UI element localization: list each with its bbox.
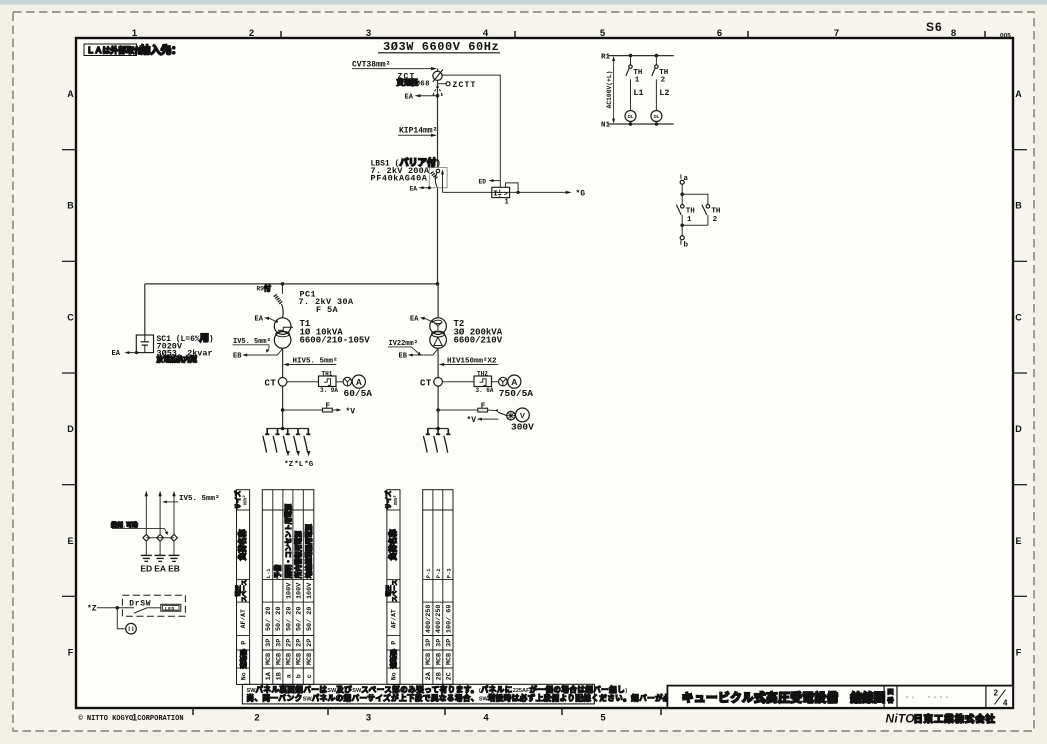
svg-text:P-3: P-3	[446, 568, 452, 578]
svg-text:LED: LED	[165, 606, 175, 612]
svg-text:EA: EA	[112, 350, 121, 358]
svg-text:mm²: mm²	[241, 495, 248, 505]
svg-text:60/5A: 60/5A	[344, 388, 373, 399]
table header P	[383, 490, 400, 685]
ground conductor EB	[168, 491, 180, 574]
svg-text:750/5A: 750/5A	[499, 388, 534, 399]
wire T2 branch stub	[437, 284, 439, 318]
lamp DL L1	[625, 111, 636, 125]
svg-text:5: 5	[600, 713, 606, 724]
svg-text:P: P	[391, 641, 398, 645]
ammeter A T2	[499, 375, 534, 399]
svg-text:c: c	[306, 674, 314, 678]
wire CT to TH2	[442, 381, 474, 383]
svg-text:3P: 3P	[425, 639, 433, 647]
svg-text:1: 1	[505, 198, 509, 206]
door switch DrSW	[87, 595, 185, 616]
wire R1 line	[608, 55, 674, 57]
ammeter changeover switch T2	[499, 377, 508, 386]
feeder bus T2	[427, 427, 448, 431]
cable label KIP14mm2	[398, 127, 437, 137]
svg-text:ED: ED	[140, 564, 152, 574]
svg-text:4: 4	[483, 713, 489, 724]
feeder labels *Z *L *G	[284, 461, 314, 469]
cable label IV5.5mm2 (ground)	[162, 494, 219, 503]
wire junction to TH2 branch	[682, 194, 708, 204]
svg-text:MCB: MCB	[296, 653, 304, 665]
feeder switch 3 (T1 side)	[283, 429, 290, 457]
svg-text:5: 5	[600, 28, 606, 39]
svg-text:盤側,可動: 盤側,可動	[110, 521, 138, 529]
cable label HIV150mm2X2	[439, 357, 499, 367]
svg-text:6600/210-105V: 6600/210-105V	[300, 336, 371, 346]
svg-text:EA: EA	[154, 564, 166, 574]
svg-text:EA: EA	[405, 93, 414, 101]
svg-text:E: E	[1015, 536, 1021, 546]
svg-text:3: 3	[366, 713, 371, 724]
svg-text:地絡継電器用電源: 地絡継電器用電源	[304, 524, 314, 578]
svg-text:DL: DL	[653, 114, 659, 119]
lamp DL L2	[651, 111, 662, 125]
svg-text:100V: 100V	[296, 582, 304, 599]
svg-text:放電抵抗内蔵: 放電抵抗内蔵	[156, 355, 198, 365]
svg-text:400/250: 400/250	[435, 605, 443, 634]
svg-text:SWパネル裏面銅バーはSW及びSWスペース部のみ張って有りま: SWパネル裏面銅バーはSW及びSWスペース部のみ張って有ります。(パネルに225…	[247, 685, 628, 694]
terminal b	[680, 225, 688, 249]
svg-text:スペース: スペース	[392, 579, 399, 602]
svg-text:*Z: *Z	[87, 605, 97, 614]
svg-text:キュービクル式高圧受電設備: キュービクル式高圧受電設備	[682, 691, 839, 705]
svg-text:ZCTT: ZCTT	[453, 81, 477, 90]
svg-text:MCB: MCB	[265, 653, 273, 665]
svg-text:納入先：: 納入先：	[140, 44, 182, 58]
svg-text:b: b	[296, 674, 304, 678]
svg-text:スペース: スペース	[241, 579, 248, 602]
svg-text:2: 2	[254, 713, 259, 724]
svg-text:50/ 20: 50/ 20	[265, 607, 273, 631]
svg-text:Ø68: Ø68	[416, 79, 431, 88]
wire LBS striker output to *G	[443, 190, 586, 199]
feeder switch 4 (T1 side)	[294, 429, 301, 457]
svg-text:A: A	[67, 89, 74, 99]
svg-text:TH: TH	[686, 207, 695, 215]
svg-text:N1: N1	[601, 122, 611, 130]
svg-text:遮断器: 遮断器	[389, 649, 398, 669]
svg-text:結線図: 結線図	[851, 691, 886, 705]
feeder switch 2 (T2 side)	[434, 429, 441, 453]
svg-text:所内警報用電源: 所内警報用電源	[294, 531, 304, 579]
thermal relay TH1	[319, 370, 339, 394]
svg-text:日東工業株式会社: 日東工業株式会社	[914, 713, 996, 724]
svg-text:DL: DL	[628, 114, 634, 119]
svg-text:EA: EA	[410, 185, 418, 192]
wire N1 line	[608, 123, 674, 125]
ground tap EA at T1	[255, 316, 277, 324]
svg-text:© NITTO KOGYO CORPORATION: © NITTO KOGYO CORPORATION	[79, 714, 184, 723]
svg-text:3. 6A: 3. 6A	[476, 387, 494, 394]
ground tap EA at arrester	[405, 93, 440, 101]
svg-text:P-1: P-1	[426, 568, 432, 578]
thermal relay TH2	[474, 370, 494, 394]
svg-text:ＬＡは外部取付: ＬＡは外部取付	[87, 45, 143, 56]
fuse PC1 primary cutout (RS)	[257, 284, 355, 318]
svg-text:EA: EA	[410, 316, 419, 324]
svg-text:MCB: MCB	[435, 653, 443, 665]
node R1	[601, 53, 611, 61]
svg-text:3P: 3P	[265, 639, 273, 647]
svg-text:ED: ED	[479, 178, 487, 185]
svg-text:S6: S6	[926, 20, 943, 34]
svg-text:R1: R1	[601, 53, 611, 61]
svg-text:EB: EB	[233, 353, 242, 361]
svg-text:AC100V(+L): AC100V(+L)	[606, 71, 613, 109]
svg-text:8: 8	[951, 28, 956, 39]
transformer T1	[274, 318, 370, 348]
logo NITO	[886, 711, 996, 725]
svg-text:300V: 300V	[511, 422, 534, 433]
svg-text:4: 4	[1003, 698, 1008, 707]
svg-text:1A: 1A	[265, 671, 273, 680]
ground tap EB at T1	[233, 348, 283, 360]
svg-text:MCB: MCB	[306, 653, 314, 665]
svg-text:3P: 3P	[445, 639, 453, 647]
svg-text:遮断器: 遮断器	[238, 649, 247, 669]
svg-text:a: a	[285, 674, 293, 678]
fuse F (T2)	[436, 402, 496, 412]
svg-text:EA: EA	[255, 316, 264, 324]
svg-text:B: B	[1015, 201, 1022, 211]
wire TH2 to ammeter	[492, 381, 499, 383]
svg-text:L2: L2	[659, 88, 669, 98]
svg-text:No: No	[240, 672, 247, 680]
note 盤側可動 with leader	[110, 521, 168, 535]
svg-text:2A: 2A	[425, 671, 433, 680]
svg-text:MCB: MCB	[275, 653, 283, 665]
ground conductor ED	[140, 491, 152, 574]
svg-text:予備: 予備	[273, 564, 283, 578]
svg-text:D: D	[67, 424, 74, 434]
transformer T2	[430, 318, 503, 348]
svg-text:1: 1	[687, 216, 692, 224]
svg-text:F: F	[68, 648, 74, 658]
svg-text:2: 2	[249, 28, 254, 39]
ground relay GR (I earth >)	[492, 183, 520, 206]
svg-text:CT: CT	[420, 379, 432, 389]
svg-text:*V: *V	[346, 407, 356, 416]
svg-text:照明・コンセント用電源: 照明・コンセント用電源	[283, 504, 293, 579]
cable label IV5.5mm2 at T1	[233, 338, 271, 352]
svg-text:100/ 60: 100/ 60	[445, 605, 453, 634]
svg-text:6: 6	[717, 28, 722, 39]
wire T1 branch stub	[282, 284, 284, 294]
switch TH1 thermostat	[626, 54, 644, 126]
svg-text:AF/AT: AF/AT	[240, 609, 247, 628]
svg-text:3: 3	[366, 28, 371, 39]
svg-text:PF40kAG40A: PF40kAG40A	[371, 174, 428, 184]
svg-text:A: A	[511, 377, 517, 387]
svg-text:7: 7	[834, 28, 839, 39]
CT current transformer T1	[265, 378, 287, 389]
wire TH1 to ammeter	[336, 381, 343, 383]
svg-text:100V: 100V	[306, 582, 314, 599]
wire SC1 branch	[144, 284, 146, 335]
svg-text:TH1: TH1	[322, 370, 333, 377]
svg-text:3P: 3P	[275, 639, 283, 647]
svg-text:L-1: L-1	[266, 568, 272, 578]
ZCTT terminal	[438, 81, 477, 90]
svg-text:IV5. 5mm²: IV5. 5mm²	[179, 494, 220, 503]
cable label IV22mm2 at T2	[388, 340, 421, 356]
feeder switch 1 (T1 side)	[263, 429, 270, 453]
svg-text:I: I	[493, 191, 498, 199]
cable label HIV5.5mm2	[283, 357, 337, 367]
svg-text:2P: 2P	[306, 639, 314, 647]
svg-text:4: 4	[483, 28, 489, 39]
svg-text:P: P	[240, 641, 247, 645]
svg-text:AF/AT: AF/AT	[391, 609, 398, 628]
terminal a	[680, 174, 688, 184]
voltmeter changeover switch VS	[495, 409, 515, 420]
svg-text:3Ø3W 6600V 60Hz: 3Ø3W 6600V 60Hz	[383, 40, 499, 54]
ground conductor EA	[154, 491, 166, 574]
CT current transformer T2	[420, 378, 442, 389]
ammeter A T1	[344, 375, 373, 399]
copyright	[79, 714, 184, 723]
svg-text:1: 1	[132, 28, 138, 39]
svg-text:MCB: MCB	[285, 653, 293, 665]
note LA external mounting	[84, 44, 142, 56]
svg-text:B: B	[67, 201, 74, 211]
ZCT zero-phase current transformer	[397, 69, 444, 88]
switch TH2 thermostat	[652, 54, 670, 126]
ground tap EB at T2	[399, 348, 439, 360]
svg-text:F: F	[1016, 648, 1022, 658]
svg-text:1B: 1B	[275, 672, 283, 680]
svg-text:50/ 20: 50/ 20	[275, 607, 283, 631]
svg-text:TH2: TH2	[477, 370, 488, 377]
svg-text:*G: *G	[576, 190, 586, 199]
svg-text:EB: EB	[399, 353, 408, 361]
svg-text:2P: 2P	[296, 639, 304, 647]
svg-text:mm²: mm²	[392, 495, 399, 505]
svg-text:F 5A: F 5A	[316, 305, 339, 315]
svg-text:MCB: MCB	[425, 653, 433, 665]
svg-text:E: E	[67, 536, 73, 546]
svg-text:MCB: MCB	[445, 653, 453, 665]
svg-text:L1: L1	[633, 88, 643, 98]
ammeter changeover switch T1	[343, 377, 352, 386]
ground tap EA at T2	[410, 316, 432, 324]
contact TH2	[702, 205, 721, 226]
svg-text:3P: 3P	[435, 639, 443, 647]
label 納入先	[140, 44, 182, 58]
svg-text:b: b	[684, 242, 689, 250]
svg-text:EB: EB	[168, 564, 180, 574]
capacitor SC1	[136, 333, 213, 365]
wire linking ground terminals	[146, 537, 174, 539]
svg-text:番: 番	[886, 697, 894, 705]
ground tap EA at LBS1	[410, 185, 431, 192]
svg-text:A: A	[1015, 89, 1022, 99]
ground tap ED at relay branch	[479, 178, 501, 185]
svg-text:1: 1	[635, 76, 640, 84]
wire main incoming line	[437, 69, 439, 284]
svg-text:2C: 2C	[445, 672, 453, 680]
feeder switch 2 (T1 side)	[273, 429, 280, 453]
svg-text:図: 図	[887, 688, 893, 696]
dimension AC100V(+L)	[606, 56, 615, 124]
wire TH2 bottom to junction	[680, 224, 708, 228]
svg-text:2: 2	[661, 76, 666, 84]
svg-text:6600/210V: 6600/210V	[454, 336, 503, 346]
wire T2 secondary	[437, 348, 439, 428]
svg-text:400/250: 400/250	[425, 605, 433, 634]
heading 3phase 3wire 6600V 60Hz	[378, 40, 500, 54]
svg-text:2B: 2B	[435, 672, 443, 680]
svg-text:100V: 100V	[285, 582, 293, 599]
feeder switch 1 (T2 side)	[423, 429, 430, 453]
title block	[667, 686, 1013, 708]
feeder switch 3 (T2 side)	[444, 429, 451, 453]
svg-text:RS付: RS付	[257, 284, 271, 294]
svg-text:*G: *G	[304, 461, 314, 469]
svg-text:2: 2	[713, 216, 718, 224]
lamp at DrSW	[116, 606, 137, 634]
svg-text:*Z: *Z	[284, 461, 294, 469]
svg-text:NiTO: NiTO	[886, 711, 916, 725]
svg-text:D: D	[1015, 424, 1022, 434]
feeder bus T1	[266, 427, 309, 431]
svg-text:P-2: P-2	[436, 568, 442, 578]
svg-text:2: 2	[994, 689, 999, 698]
svg-text:2P: 2P	[285, 639, 293, 647]
fuse F to *V (T1)	[281, 402, 356, 416]
ground tap EA at SC1	[112, 350, 139, 358]
note box copper bar	[242, 684, 774, 704]
wire *V reference (T2)	[467, 416, 499, 425]
table data L	[262, 490, 314, 685]
wire T1 secondary	[282, 348, 284, 428]
svg-text:DrSW: DrSW	[129, 599, 151, 608]
svg-text:A: A	[356, 377, 362, 387]
svg-text:3. 9A: 3. 9A	[320, 387, 338, 394]
wire CT to TH1	[287, 381, 319, 383]
contact TH1	[676, 194, 695, 225]
cable label CVT38mm2	[352, 61, 437, 71]
wire ZCT secondary to ground relay	[442, 75, 500, 187]
table header L	[233, 490, 250, 685]
node N1	[601, 122, 611, 130]
wire high-voltage bus to SC1/T1	[145, 282, 440, 286]
feeder switch 5 (T1 side)	[304, 429, 311, 457]
svg-text:V: V	[520, 411, 525, 420]
wire a to junction	[680, 184, 684, 196]
svg-text:005: 005	[1000, 33, 1011, 40]
svg-text:C: C	[67, 313, 74, 323]
svg-text:TH: TH	[711, 207, 720, 215]
svg-text:50/ 20: 50/ 20	[285, 607, 293, 631]
svg-text:*V: *V	[467, 416, 477, 425]
LBS1 load break switch with fuse	[371, 156, 448, 192]
table data P	[423, 490, 454, 685]
svg-text:No: No	[391, 672, 398, 680]
svg-text:50/ 20: 50/ 20	[296, 607, 304, 631]
svg-text:50/ 20: 50/ 20	[306, 607, 314, 631]
voltmeter V 300V	[511, 408, 534, 433]
svg-text:*L: *L	[294, 461, 304, 469]
svg-text:CT: CT	[265, 379, 277, 389]
arrester LA (externally mounted, dashed)	[433, 86, 443, 96]
svg-text:C: C	[1015, 313, 1022, 323]
